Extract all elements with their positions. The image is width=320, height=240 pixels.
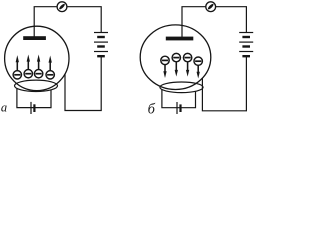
svg-text:б: б [148, 102, 156, 117]
svg-text:а: а [1, 101, 7, 115]
